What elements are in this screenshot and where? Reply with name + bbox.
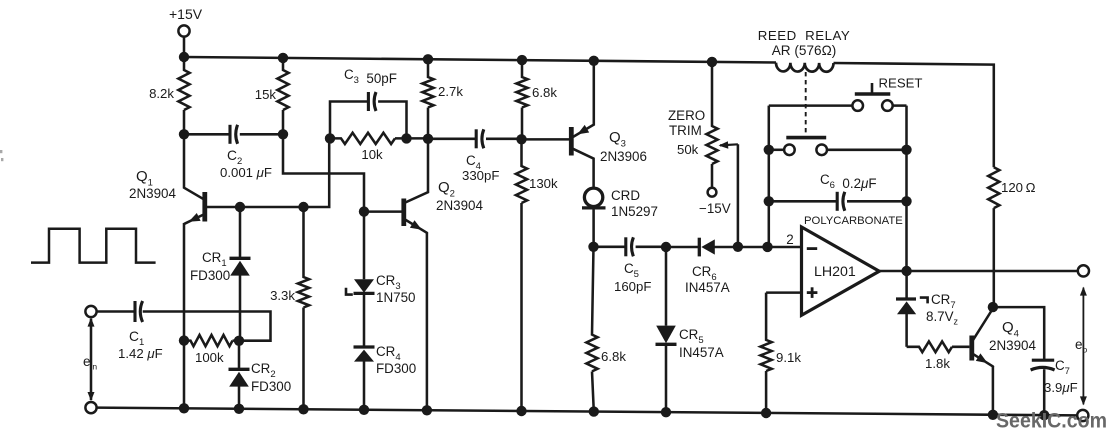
svg-text:3.3k: 3.3k xyxy=(270,288,295,303)
resistor 120 ohm xyxy=(988,167,1035,307)
junction: 15k/C2 xyxy=(278,129,288,139)
junction: 100k/CR1/CR2/C1 xyxy=(234,336,244,346)
wire: wiper to inverting node xyxy=(737,144,740,247)
junction: feedback right/contact xyxy=(901,145,911,155)
junction: rail/Q4 emitter xyxy=(988,410,998,420)
svg-text:100k: 100k xyxy=(195,350,224,365)
svg-text:120 Ω: 120 Ω xyxy=(1001,180,1036,195)
transistor Q2 2N3904 xyxy=(364,139,483,233)
wire: top rail (right of coil) and right-side drop to 120 ohm xyxy=(834,63,994,167)
transistor Q3 2N3906 xyxy=(522,61,647,188)
svg-text:50k: 50k xyxy=(677,142,699,157)
svg-text:1.8k: 1.8k xyxy=(925,356,950,371)
diode CRD 1N5297 (current regulator) xyxy=(582,188,658,247)
svg-text:130k: 130k xyxy=(529,176,558,191)
resistor 6.8k (top) xyxy=(516,60,557,139)
svg-text:9.1k: 9.1k xyxy=(776,350,801,365)
wire: relay actuation dashed link xyxy=(805,72,807,134)
op-amp U1 LH201 xyxy=(786,227,879,315)
junction: Q1 base/CR1 xyxy=(235,202,245,212)
wire: Q1 emitter drop xyxy=(183,223,186,408)
wire: C1 to 100k right node xyxy=(143,312,271,341)
svg-text:POLYCARBONATE: POLYCARBONATE xyxy=(804,215,903,227)
diode CR4 FD300 xyxy=(354,344,417,410)
wire: Q4 emitter drop xyxy=(992,366,995,414)
wire: top supply rail (left of relay coil) xyxy=(184,57,776,63)
svg-text:FD300: FD300 xyxy=(251,379,291,394)
svg-text:160pF: 160pF xyxy=(614,279,651,294)
capacitor C3 xyxy=(330,67,407,138)
node e_o xyxy=(1075,287,1088,406)
svg-text:2N3906: 2N3906 xyxy=(600,149,647,164)
junction: Q1 emitter/100k xyxy=(179,335,189,345)
svg-text:330pF: 330pF xyxy=(462,168,499,183)
svg-text:3.9μF: 3.9μF xyxy=(1044,380,1078,395)
svg-text:TRIM: TRIM xyxy=(669,123,702,138)
wire: 15k bottom to Q2 base node xyxy=(283,134,364,208)
resistor 6.8k (bottom) xyxy=(586,247,626,412)
junction: rail/3.3k xyxy=(298,404,308,414)
svg-text:1.42 μF: 1.42 μF xyxy=(118,346,163,361)
svg-text:2N3904: 2N3904 xyxy=(989,338,1036,353)
junction: rail/CR5 xyxy=(661,407,671,417)
power -15V terminal xyxy=(699,188,731,216)
junction: rail/Q2 emitter xyxy=(422,405,432,415)
junction: Q4 collector/120ohm/C7 xyxy=(988,302,998,312)
junction: rail/CR2 xyxy=(234,404,244,414)
wire: +15V lead xyxy=(183,37,186,58)
junction: rail/C7 xyxy=(1039,410,1049,420)
capacitor C6 xyxy=(769,172,907,227)
svg-text:LH201: LH201 xyxy=(814,264,856,280)
resistor 1.8k xyxy=(907,341,970,371)
svg-text:RESET: RESET xyxy=(879,76,923,91)
svg-text:8.2k: 8.2k xyxy=(149,86,174,101)
resistor 100k xyxy=(184,335,239,365)
power +15V terminal xyxy=(169,6,203,37)
junction: rail/130k xyxy=(516,406,526,416)
svg-text:2: 2 xyxy=(786,232,793,247)
junction: op-amp output/feedback xyxy=(901,266,911,276)
resistor 9.1k xyxy=(761,293,802,413)
junction: feedback right/C6 xyxy=(901,196,911,206)
svg-text:IN457A: IN457A xyxy=(679,345,724,360)
junction: C3/10k right xyxy=(401,133,411,143)
junction: C3/10k/Q1 base xyxy=(325,133,335,143)
svg-text:10k: 10k xyxy=(361,147,383,162)
svg-text:1N5297: 1N5297 xyxy=(611,204,658,219)
svg-text:2N3904: 2N3904 xyxy=(129,186,176,201)
svg-text:FD300: FD300 xyxy=(376,361,416,376)
terminal: input bottom xyxy=(85,402,96,413)
junction: rail/8.2k xyxy=(179,52,189,62)
junction: feedback left/contact xyxy=(764,145,774,155)
inductor: reed relay coil AR xyxy=(758,28,850,72)
svg-text:1N750: 1N750 xyxy=(376,290,415,305)
junction: feedback left/C6 xyxy=(764,196,774,206)
switch: relay contact (normally open) xyxy=(769,138,907,156)
junction: rail/zero-trim xyxy=(707,57,717,67)
junction: rail/CR4 xyxy=(359,405,369,415)
junction: rail/6.8k bottom xyxy=(589,406,599,416)
junction: rail/15k xyxy=(278,53,288,63)
wire: feedback left column xyxy=(768,106,771,247)
watermark xyxy=(996,410,1107,433)
resistor 3.3k xyxy=(270,207,309,409)
svg-text:REED RELAY: REED RELAY xyxy=(758,28,850,43)
svg-text:6.8k: 6.8k xyxy=(532,85,557,100)
junction: C5/CR5/CR6 xyxy=(661,242,671,252)
svg-text:2.7k: 2.7k xyxy=(438,84,463,99)
junction: CRD/C5/6.8k xyxy=(588,242,598,252)
junction: rail/Q3 emitter xyxy=(589,56,599,66)
resistor 2.7k xyxy=(422,59,463,139)
wire: non-inverting input lead xyxy=(766,291,801,294)
junction: rail/Q1 emitter xyxy=(179,403,189,413)
junction: inverting net/feedback left xyxy=(762,242,772,252)
svg-text:0.001 μF: 0.001 μF xyxy=(220,165,272,180)
junction: 6.8k/C4/130k/Q3 base xyxy=(516,134,526,144)
wire: output line to e_o xyxy=(879,270,1078,273)
wire: feedback right column xyxy=(905,106,908,271)
wire: Q1 collector riser xyxy=(184,134,203,199)
svg-text:FD300: FD300 xyxy=(190,268,230,283)
diode CR5 IN457A xyxy=(656,247,724,412)
scan speck xyxy=(0,150,3,161)
capacitor C5 xyxy=(594,237,667,294)
capacitor C1 xyxy=(97,301,163,361)
junction: rail/2.7k xyxy=(423,54,433,64)
svg-text:−15V: −15V xyxy=(699,201,731,216)
diode CR6 IN457A xyxy=(666,238,768,295)
svg-text:6.8k: 6.8k xyxy=(601,349,626,364)
svg-text:ZERO: ZERO xyxy=(668,108,705,123)
svg-text:15k: 15k xyxy=(255,87,277,102)
svg-text:AR (576Ω): AR (576Ω) xyxy=(772,43,837,58)
resistor 15k xyxy=(255,58,289,134)
junction: rail/9.1k xyxy=(761,408,771,418)
node e_in xyxy=(83,318,97,401)
switch: RESET pushbutton xyxy=(769,76,923,111)
terminal: input top xyxy=(85,306,96,317)
terminal: output e_o xyxy=(1078,265,1089,276)
junction: 8.2k/C2/Q1 collector xyxy=(179,129,189,139)
wire: 10k node to 2.7k node xyxy=(407,137,429,140)
junction: Q2 base/CR3 xyxy=(359,206,369,216)
junction: wiper/inverting net xyxy=(733,242,743,252)
transistor Q4 2N3904 xyxy=(972,309,1037,367)
svg-text:+15V: +15V xyxy=(169,6,203,22)
svg-text:IN457A: IN457A xyxy=(685,280,730,295)
wire: inverting input lead xyxy=(768,246,802,249)
terminal: output bottom xyxy=(1077,410,1088,421)
potentiometer ZERO TRIM 50k xyxy=(668,62,738,188)
diode CR2 FD300 xyxy=(229,341,292,409)
resistor 8.2k xyxy=(149,57,190,134)
resistor 10k xyxy=(330,133,407,162)
wire: Q2 emitter drop xyxy=(426,233,429,410)
diode CR7 8.7V zener xyxy=(896,271,959,347)
svg-text:2N3904: 2N3904 xyxy=(436,198,483,213)
resistor 130k xyxy=(516,139,558,411)
input square-wave symbol xyxy=(31,229,156,263)
junction: 2.7k/C4/Q2 collector xyxy=(423,134,433,144)
capacitor C4 xyxy=(428,129,522,183)
junction: Q1 base/3.3k xyxy=(298,202,308,212)
svg-text:CRD: CRD xyxy=(611,188,640,203)
wire: Q1 base line to C3/10k node xyxy=(240,138,329,207)
capacitor C2 xyxy=(184,125,283,180)
svg-text:SeekIC.com: SeekIC.com xyxy=(996,410,1107,433)
junction: rail/6.8k xyxy=(517,55,527,65)
diode CR3 1N750 (zener) xyxy=(346,212,415,347)
transistor Q1 2N3904 xyxy=(129,168,240,224)
wire: bottom common rail xyxy=(97,408,1078,416)
capacitor C7 xyxy=(993,307,1078,415)
diode CR1 FD300 xyxy=(190,207,251,341)
